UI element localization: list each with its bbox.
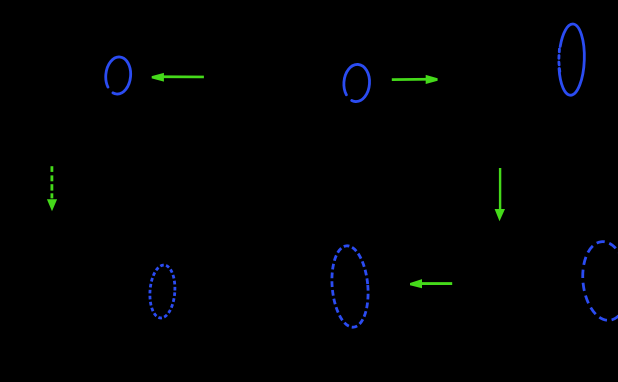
ellipse E4 (bottom-left, dashed blue oval)	[148, 264, 176, 319]
ellipse E2 (top-middle, solid blue oval)	[343, 64, 371, 103]
arrow A4 (green, pointing left, bottom)	[410, 279, 452, 288]
ellipse E5 (bottom-middle, dashed blue oval)	[329, 244, 372, 328]
ellipse E3 (top-right, tall blue oval, dashed on left side)	[558, 24, 586, 96]
ellipse E1 (top-left, solid blue oval)	[104, 56, 132, 95]
ellipse E6 (bottom-right, dashed blue oval, clipped by right edge)	[579, 239, 618, 322]
arrow A2 (green, pointing right)	[392, 75, 438, 84]
arrow A5 (green, pointing down, right side)	[495, 168, 505, 221]
arrow A3 (green dashed, pointing down, left side)	[47, 166, 57, 211]
arrow A1 (green, pointing left)	[152, 73, 204, 82]
